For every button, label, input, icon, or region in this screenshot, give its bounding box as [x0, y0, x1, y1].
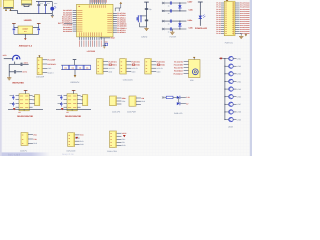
svg-text:USB-: USB-: [189, 27, 194, 30]
svg-text:SCL: SCL: [122, 141, 125, 144]
svg-text:USB-: USB-: [189, 9, 194, 12]
svg-text:SPK-: SPK-: [122, 100, 126, 103]
svg-text:Snap=0.1in: Snap=0.1in: [62, 153, 74, 156]
svg-text:LED7: LED7: [237, 103, 241, 106]
svg-text:KEY1: KEY1: [24, 61, 28, 64]
svg-text:VCC-5V: VCC-5V: [157, 67, 164, 70]
svg-text:PWR-LED: PWR-LED: [174, 112, 183, 115]
svg-text:VCC-5V: VCC-5V: [108, 67, 115, 70]
svg-text:CON-PWR: CON-PWR: [127, 110, 136, 113]
svg-text:P0.19/MAT1: P0.19/MAT1: [174, 69, 183, 72]
svg-text:100u: 100u: [54, 3, 57, 5]
svg-text:12MHz: 12MHz: [141, 36, 147, 39]
svg-text:LED9: LED9: [237, 118, 241, 121]
svg-text:P0.8/TXD1: P0.8/TXD1: [157, 60, 165, 63]
svg-text:P0.9/RXD1: P0.9/RXD1: [157, 64, 166, 67]
svg-text:LED3: LED3: [237, 73, 241, 76]
svg-text:INT0: INT0: [3, 54, 7, 57]
svg-text:USB+: USB+: [188, 1, 193, 4]
svg-text:CON-PC: CON-PC: [20, 150, 28, 153]
svg-text:0.1u: 0.1u: [47, 3, 50, 5]
svg-text:SPK+: SPK+: [122, 97, 126, 100]
svg-text:P0.13/DTR1: P0.13/DTR1: [174, 66, 183, 69]
svg-text:SWITCHES: SWITCHES: [12, 82, 24, 85]
svg-text:LED4: LED4: [237, 80, 241, 83]
svg-text:P0.9/RXD1: P0.9/RXD1: [108, 64, 117, 67]
svg-text:U3: U3: [66, 111, 68, 114]
svg-text:U3: U3: [18, 111, 20, 114]
svg-text:CON-COM1: CON-COM1: [123, 79, 133, 82]
svg-text:PORT 0/1: PORT 0/1: [225, 42, 233, 45]
svg-text:CON-LCD12: CON-LCD12: [107, 150, 117, 153]
svg-text:RESPACK: RESPACK: [71, 81, 81, 84]
svg-text:22p: 22p: [149, 8, 152, 11]
svg-text:LPC2138: LPC2138: [87, 50, 95, 53]
svg-text:LED5: LED5: [237, 88, 241, 91]
svg-text:LED6: LED6: [237, 96, 241, 99]
svg-text:P0.12/DSR1: P0.12/DSR1: [174, 63, 183, 66]
svg-text:KEY2: KEY2: [23, 70, 27, 73]
svg-text:VCC-5V: VCC-5V: [132, 67, 139, 70]
svg-text:AMS1117-3.3: AMS1117-3.3: [19, 44, 33, 47]
svg-text:54.5 -123.0: 54.5 -123.0: [8, 153, 21, 156]
svg-text:VCC5: VCC5: [122, 132, 127, 135]
svg-text:RST/EINT1: RST/EINT1: [48, 63, 57, 66]
svg-text:CON-SPK: CON-SPK: [112, 110, 121, 113]
svg-text:P0.11/CTS1: P0.11/CTS1: [174, 60, 183, 63]
svg-text:P0.22/AD1.7: P0.22/AD1.7: [174, 72, 184, 75]
svg-text:P0.8/TXD1: P0.8/TXD1: [108, 60, 116, 63]
svg-text:L6920D: L6920D: [24, 19, 32, 22]
svg-text:CON-GSM: CON-GSM: [67, 149, 76, 152]
svg-text:MAX3232ACSE: MAX3232ACSE: [17, 115, 33, 118]
svg-text:USB+: USB+: [188, 19, 193, 22]
svg-text:LED2: LED2: [237, 65, 241, 68]
svg-text:U1: U1: [78, 5, 80, 8]
svg-text:0.1u: 0.1u: [40, 3, 43, 5]
svg-text:P0.9/RXD1: P0.9/RXD1: [117, 31, 126, 34]
svg-text:POWER-LED: POWER-LED: [195, 27, 208, 30]
svg-text:P0.8/TXD1: P0.8/TXD1: [132, 60, 140, 63]
svg-text:CON-ISP: CON-ISP: [36, 76, 45, 79]
svg-text:P0.9/RXD1: P0.9/RXD1: [132, 64, 141, 67]
svg-text:VCC3.3: VCC3.3: [48, 72, 54, 75]
svg-text:FILTER: FILTER: [170, 35, 177, 38]
svg-text:MAX3232ACSE: MAX3232ACSE: [65, 115, 81, 118]
svg-text:LED8: LED8: [237, 111, 241, 114]
svg-text:LEDS: LEDS: [228, 126, 234, 129]
svg-text:LED1: LED1: [237, 57, 241, 60]
svg-text:P0.14/ISP: P0.14/ISP: [48, 59, 56, 62]
